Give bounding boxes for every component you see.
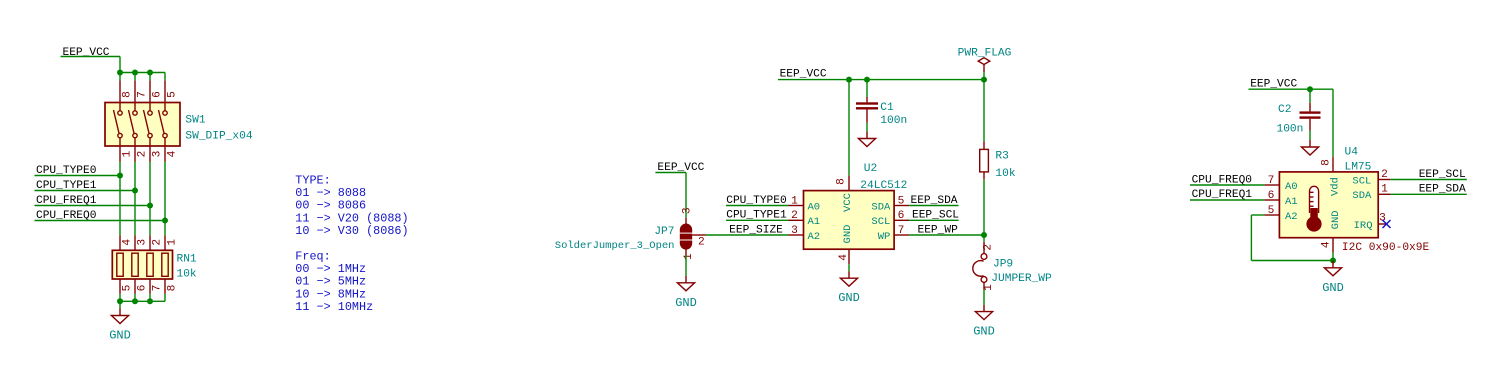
ground (below C1, no text)	[858, 132, 875, 147]
svg-text:EEP_VCC: EEP_VCC	[63, 47, 110, 59]
junction CPU_TYPE1	[132, 188, 138, 194]
wire C1 to GND	[866, 123, 868, 132]
svg-text:4: 4	[121, 239, 133, 246]
svg-text:7: 7	[1268, 175, 1275, 187]
jumper JP9 pin 2 (top)	[981, 242, 994, 260]
U4 pin 4 GND (bottom)	[1321, 210, 1342, 252]
svg-text:SCL: SCL	[1352, 175, 1371, 187]
solder jumper JP7 pads	[680, 223, 692, 249]
switch SW1 unit 2 pin 7 (top)	[133, 80, 149, 115]
wire to SW1 top pin 6	[149, 73, 151, 81]
svg-text:VCC: VCC	[842, 193, 854, 212]
svg-text:7: 7	[151, 285, 163, 292]
wire down to U2 VCC	[848, 80, 850, 176]
reference U4	[1345, 147, 1359, 159]
svg-text:A1: A1	[808, 216, 821, 228]
svg-text:3: 3	[151, 151, 163, 158]
wire to JP9	[983, 235, 985, 242]
net label CPU_TYPE0	[36, 165, 97, 177]
wire to C1	[866, 80, 868, 97]
junction at SW1 pin 6 feed	[147, 70, 153, 76]
wire SW1 pin 3 to RN1	[149, 162, 151, 236]
svg-text:SolderJumper_3_Open: SolderJumper_3_Open	[555, 240, 675, 252]
svg-text:2: 2	[151, 239, 163, 246]
svg-text:JP9: JP9	[993, 258, 1013, 270]
wire CPU_FREQ0	[1190, 184, 1264, 186]
svg-text:10k: 10k	[177, 269, 197, 281]
wire EEP_SDA right	[1390, 193, 1466, 195]
net label CPU_FREQ1	[36, 195, 97, 207]
reference C1	[880, 102, 894, 114]
ground GND (below JP9)	[973, 305, 995, 339]
svg-text:LM75: LM75	[1345, 162, 1372, 174]
note text Freq table	[295, 249, 373, 314]
wire CPU_FREQ1	[1190, 199, 1264, 201]
svg-text:10k: 10k	[995, 168, 1015, 180]
wire EEP_SCL right	[1390, 179, 1466, 181]
svg-text:U4: U4	[1345, 147, 1359, 159]
net label EEP_SCL	[912, 210, 959, 222]
svg-text:5: 5	[166, 91, 178, 98]
wire to GND	[119, 301, 121, 308]
junction U4 GND / A2 loop	[1330, 258, 1336, 264]
wire CPU_TYPE1 to U2 A1	[726, 219, 789, 221]
svg-text:3: 3	[682, 207, 694, 214]
U2 pin 2 A1 (left)	[789, 210, 821, 228]
junction C2 feed	[1307, 86, 1313, 92]
junction at SW1 pin 8 feed	[117, 70, 123, 76]
switch SW1 unit 3 pin 6 (top)	[148, 80, 164, 115]
RN1 pin 2 (top)	[150, 236, 163, 251]
value SW_DIP_x04	[185, 131, 252, 143]
note text TYPE table	[295, 173, 408, 238]
U2 pin 4 GND (bottom)	[838, 225, 854, 265]
RN1 pin 8 (bottom)	[165, 279, 178, 294]
U4 pin 6 A1 (left)	[1264, 190, 1297, 208]
junction C1 feed	[864, 77, 870, 83]
svg-text:SW_DIP_x04: SW_DIP_x04	[185, 131, 252, 143]
svg-text:GND: GND	[109, 329, 131, 343]
wire CPU_FREQ0	[35, 220, 166, 222]
svg-text:100n: 100n	[1277, 123, 1304, 135]
svg-text:I2C 0x90-0x9E: I2C 0x90-0x9E	[1342, 242, 1430, 254]
svg-text:JUMPER_WP: JUMPER_WP	[991, 273, 1052, 285]
resistor RN1 element 1	[117, 253, 123, 276]
svg-text:JP7: JP7	[654, 226, 674, 238]
svg-text:24LC512: 24LC512	[860, 180, 907, 192]
RN1 pin 6 (bottom)	[135, 279, 148, 294]
switch SW1 unit 3 lever	[144, 110, 150, 133]
wire EEP_SCL	[909, 219, 958, 221]
wire EEP_SIZE / JP7 to U2 A2	[706, 234, 789, 236]
junction CPU_FREQ0	[162, 218, 168, 224]
svg-text:SCL: SCL	[871, 216, 890, 228]
svg-text:GND: GND	[842, 225, 854, 244]
svg-text:RN1: RN1	[177, 254, 197, 266]
value 10k (RN1)	[177, 269, 197, 281]
svg-text:100n: 100n	[880, 115, 907, 127]
svg-text:GND: GND	[973, 325, 995, 339]
power label EEP_VCC (left)	[63, 47, 110, 59]
reference SW1	[185, 115, 205, 127]
U4 pin 5 A2 (left)	[1264, 205, 1297, 223]
wire SW1 pin 2 to RN1	[134, 162, 136, 236]
U4 pin 1 SDA (right)	[1352, 184, 1390, 203]
svg-text:8: 8	[836, 178, 848, 185]
power flag PWR_FLAG	[958, 47, 1012, 72]
svg-text:5: 5	[1268, 205, 1275, 217]
jumper JP9 pin 1 (bottom)	[981, 277, 995, 291]
junction CPU_FREQ1	[147, 203, 153, 209]
switch SW1 unit 3 pin 3 (bottom)	[148, 133, 164, 161]
ground GND (below U4)	[1322, 261, 1344, 295]
net label CPU_TYPE1	[36, 180, 97, 192]
U2 pin 6 SCL (right)	[871, 210, 909, 228]
svg-text:A2: A2	[808, 231, 821, 243]
svg-text:2: 2	[698, 236, 705, 248]
wire U4 GND pin down	[1332, 253, 1334, 261]
svg-text:GND: GND	[675, 296, 697, 310]
value 100n (C1)	[880, 115, 907, 127]
svg-text:10 −> V30 (8086): 10 −> V30 (8086)	[295, 224, 408, 238]
IC U4 LM75 body	[1279, 172, 1378, 238]
svg-text:6: 6	[136, 285, 148, 292]
wire RN1 pin 6 down	[134, 294, 136, 301]
svg-text:A1: A1	[1285, 196, 1298, 208]
svg-text:GND: GND	[1330, 210, 1342, 229]
solder jumper JP7 pin 2 (right)	[692, 235, 706, 248]
junction EEP_WP / JP9	[981, 232, 987, 238]
wire	[61, 56, 121, 58]
net label EEP_SCL	[1419, 169, 1466, 181]
switch SW1 SW_DIP_x04 body	[105, 103, 180, 147]
svg-text:SW1: SW1	[185, 115, 205, 127]
svg-text:1: 1	[166, 239, 178, 246]
value LM75	[1345, 162, 1372, 174]
U2 pin 5 SDA (right)	[871, 195, 909, 213]
reference RN1	[177, 254, 197, 266]
IC U2 24LC512 body	[804, 191, 895, 250]
ground (below C2, no text)	[1301, 140, 1318, 155]
capacitor C2	[1300, 103, 1321, 131]
junction CPU_TYPE0	[117, 173, 123, 179]
svg-text:8: 8	[1320, 159, 1332, 166]
switch SW1 unit 4 pin 4 (bottom)	[163, 133, 179, 161]
switch SW1 unit 4 lever	[159, 110, 165, 133]
wire CPU_TYPE1	[35, 190, 136, 192]
wire RN1 pin 5 down	[119, 294, 121, 301]
wire R3 to EEP_WP row	[983, 179, 985, 235]
RN1 pin 7 (bottom)	[150, 279, 163, 294]
RN1 pin 3 (top)	[135, 236, 148, 251]
wire	[120, 72, 165, 74]
no-connect flag on U4 IRQ	[1383, 220, 1391, 228]
svg-text:A0: A0	[808, 201, 821, 213]
power label EEP_VCC (right)	[1250, 79, 1297, 91]
svg-text:1: 1	[1381, 184, 1388, 196]
wire SW1 pin 4 to RN1	[164, 162, 166, 236]
wire CPU_FREQ1	[35, 205, 151, 207]
wire U4 A2 down	[1250, 215, 1252, 261]
switch SW1 unit 2 lever	[129, 110, 135, 133]
reference U2	[864, 163, 877, 175]
svg-text:1: 1	[683, 253, 695, 260]
switch SW1 unit 2 pin 2 (bottom)	[133, 133, 149, 161]
reference JP9	[993, 258, 1013, 270]
junction gnd bus 3	[147, 298, 153, 304]
svg-text:11 −> 10MHz: 11 −> 10MHz	[295, 300, 373, 314]
svg-text:A0: A0	[1285, 181, 1298, 193]
junction gnd bus 1	[117, 298, 123, 304]
wire U2 GND pin down	[848, 264, 850, 271]
svg-text:4: 4	[838, 254, 850, 261]
wire to C2	[1309, 89, 1311, 103]
value JUMPER_WP	[991, 273, 1052, 285]
resistor R3	[980, 142, 989, 180]
U4 pin 2 SCL (right)	[1352, 169, 1390, 188]
wire U4 A2 to GND junction	[1251, 260, 1333, 262]
svg-text:EEP_VCC: EEP_VCC	[780, 69, 827, 81]
svg-text:5: 5	[898, 195, 905, 207]
wire rail to R3	[983, 80, 985, 142]
wire	[685, 173, 687, 218]
net label CPU_FREQ0 (right)	[1192, 174, 1253, 186]
svg-text:Vdd: Vdd	[1329, 177, 1341, 196]
wire EEP_VCC right rail	[1249, 88, 1334, 90]
switch SW1 unit 1 lever	[114, 110, 120, 133]
net label EEP_SDA	[911, 195, 958, 207]
svg-text:2: 2	[136, 151, 148, 158]
value SolderJumper_3_Open	[555, 240, 675, 252]
svg-text:R3: R3	[995, 150, 1008, 162]
svg-text:1: 1	[121, 150, 133, 157]
junction at SW1 pin 7 feed	[132, 70, 138, 76]
svg-text:8: 8	[121, 91, 133, 98]
svg-text:GND: GND	[1322, 281, 1344, 295]
power label EEP_VCC (middle left)	[657, 162, 704, 174]
switch SW1 unit 4 pin 5 (top)	[163, 80, 179, 115]
svg-text:2: 2	[791, 210, 798, 222]
wire ground bus	[120, 300, 165, 302]
net label CPU_TYPE0 (middle)	[726, 195, 787, 207]
svg-text:IRQ: IRQ	[1354, 220, 1373, 232]
reference JP7	[654, 226, 674, 238]
power label EEP_VCC (middle top)	[780, 69, 827, 81]
svg-text:1: 1	[791, 195, 798, 207]
switch SW1 unit 1 pin 8 (top)	[118, 80, 134, 115]
wire down to U4 VDD	[1332, 89, 1334, 157]
wire RN1 pin 8 down	[164, 294, 166, 301]
svg-text:U2: U2	[864, 163, 877, 175]
svg-text:WP: WP	[878, 231, 891, 243]
junction U2 VCC feed	[846, 77, 852, 83]
RN1 pin 5 (bottom)	[120, 279, 133, 294]
svg-text:1: 1	[983, 284, 995, 291]
wire EEP_VCC rail	[778, 79, 984, 81]
wire to SW1 top pin 7	[134, 73, 136, 81]
U2 pin 8 VCC (top)	[836, 176, 855, 212]
value 100n (C2)	[1277, 123, 1304, 135]
wire to SW1 top pin 5	[164, 73, 166, 81]
svg-text:6: 6	[1268, 190, 1275, 202]
svg-text:SDA: SDA	[871, 201, 891, 213]
U2 pin 3 A2 (left)	[789, 225, 821, 243]
ground GND (left)	[109, 309, 131, 343]
junction gnd bus 2	[132, 298, 138, 304]
wire JP7 to GND	[685, 256, 687, 276]
value 10k (R3)	[995, 168, 1015, 180]
wire U4 A2 left	[1251, 214, 1264, 216]
svg-text:C2: C2	[1278, 104, 1291, 116]
net label CPU_FREQ1 (right)	[1192, 189, 1253, 201]
resistor RN1 element 3	[147, 253, 153, 276]
svg-text:2: 2	[1381, 169, 1388, 181]
U4 pin 7 A0 (left)	[1264, 175, 1297, 193]
net label EEP_WP	[918, 224, 959, 236]
wire	[655, 172, 686, 174]
ground GND (below U2)	[838, 271, 860, 305]
U2 pin 1 A0 (left)	[789, 195, 821, 213]
svg-text:2: 2	[982, 244, 994, 251]
svg-text:4: 4	[166, 150, 178, 157]
junction PWR_FLAG / R3	[981, 77, 987, 83]
wire C2 to GND	[1309, 131, 1311, 141]
svg-text:3: 3	[791, 225, 798, 237]
svg-text:7: 7	[136, 91, 148, 98]
svg-text:C1: C1	[880, 102, 894, 114]
RN1 pin 4 (top)	[120, 236, 133, 251]
svg-text:6: 6	[898, 210, 905, 222]
solder jumper JP7 pin 3 (top)	[682, 207, 694, 224]
wire EEP_SDA	[909, 205, 958, 207]
note I2C 0x90-0x9E	[1342, 242, 1430, 254]
U4 pin 3 IRQ (right)	[1354, 213, 1387, 232]
wire PWR_FLAG to rail	[983, 72, 985, 80]
svg-text:EEP_SIZE: EEP_SIZE	[729, 224, 783, 236]
reference R3	[995, 150, 1008, 162]
value 24LC512	[860, 180, 907, 192]
switch SW1 unit 1 pin 1 (bottom)	[118, 133, 134, 161]
solder jumper JP7 pin 1 (bottom)	[683, 249, 695, 260]
U4 pin 8 Vdd (top)	[1320, 157, 1341, 196]
net label CPU_TYPE1 (middle)	[726, 210, 787, 222]
wire to SW1 top pin 8	[119, 73, 121, 81]
svg-text:A2: A2	[1285, 211, 1298, 223]
wire EEP_WP to R3/JP9	[909, 234, 984, 236]
wire RN1 pin 7 down	[149, 294, 151, 301]
jumper JP9 arc	[973, 261, 984, 277]
thermometer icon inside U4	[1306, 186, 1321, 231]
wire CPU_TYPE0	[35, 175, 121, 177]
svg-text:4: 4	[1321, 241, 1333, 248]
net label CPU_FREQ0	[36, 210, 97, 222]
svg-text:3: 3	[136, 239, 148, 246]
wire SW1 pin 1 to RN1	[119, 162, 121, 236]
svg-text:6: 6	[151, 91, 163, 98]
svg-text:8: 8	[166, 285, 178, 292]
svg-text:GND: GND	[838, 291, 860, 305]
wire	[119, 57, 121, 73]
svg-text:7: 7	[898, 225, 905, 237]
U2 pin 7 WP (right)	[878, 225, 909, 243]
svg-text:SDA: SDA	[1352, 190, 1372, 202]
net label EEP_SIZE	[729, 224, 783, 236]
svg-text:5: 5	[121, 285, 133, 292]
RN1 pin 1 (top)	[165, 236, 178, 251]
ground GND (below JP7)	[675, 276, 697, 310]
resistor RN1 element 2	[132, 253, 138, 276]
capacitor C1	[856, 97, 878, 123]
resistor network RN1 body	[112, 250, 172, 279]
wire JP9 to GND	[983, 290, 985, 305]
net label EEP_SDA	[1419, 184, 1466, 196]
reference C2	[1278, 104, 1291, 116]
resistor RN1 element 4	[162, 253, 168, 276]
wire CPU_TYPE0 to U2 A0	[726, 205, 789, 207]
